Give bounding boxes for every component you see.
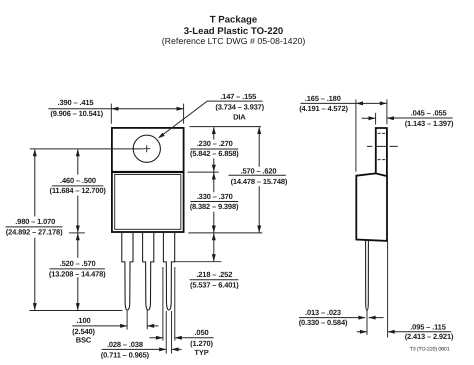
svg-text:.330 – .370: .330 – .370	[197, 192, 233, 201]
side view: front face extension line	[355, 99, 357, 171]
svg-text:BSC: BSC	[76, 336, 92, 345]
svg-text:.028 – .038: .028 – .038	[107, 340, 143, 349]
svg-text:.045 – .055: .045 – .055	[411, 109, 447, 118]
body top extension right	[188, 171, 219, 173]
dim .570-.620 line	[258, 127, 260, 232]
svg-text:.570 – .620: .570 – .620	[241, 167, 277, 176]
svg-text:(3.734 – 3.937): (3.734 – 3.937)	[215, 103, 264, 112]
svg-text:.095 – .115: .095 – .115	[410, 322, 445, 331]
svg-text:(5.537 – 6.401): (5.537 – 6.401)	[190, 280, 239, 289]
front view: mounting hole center line	[30, 148, 143, 150]
svg-text:.147 – .155: .147 – .155	[220, 92, 256, 101]
svg-text:.100: .100	[77, 316, 91, 325]
svg-text:T3 (TO-220) 0801: T3 (TO-220) 0801	[410, 346, 450, 352]
dim .165-.180 line	[301, 102, 387, 104]
svg-text:(Reference LTC DWG # 05-08-142: (Reference LTC DWG # 05-08-1420)	[162, 36, 306, 46]
side view: lead center extension	[366, 310, 368, 335]
lead 1 (left)	[122, 233, 133, 310]
dim .520-.570 line	[77, 233, 79, 310]
dim .095-.115 line	[357, 331, 452, 333]
svg-text:T Package: T Package	[210, 15, 257, 26]
svg-text:(24.892 – 27.178): (24.892 – 27.178)	[6, 228, 63, 237]
front view: hole center cross	[143, 145, 150, 152]
lead 1 center extension	[126, 310, 128, 330]
front view: body outline	[112, 172, 184, 232]
side view: tab outline	[376, 128, 387, 176]
svg-text:(14.478 – 15.748): (14.478 – 15.748)	[231, 177, 288, 186]
front view: body inner line	[115, 175, 181, 230]
svg-text:.218 – .252: .218 – .252	[196, 270, 232, 279]
front view: tab outline	[112, 128, 184, 172]
dim .390-.415 extension lines	[111, 104, 183, 124]
svg-text:.460 – .500: .460 – .500	[60, 176, 96, 185]
svg-text:.013 – .023: .013 – .023	[305, 308, 341, 317]
svg-text:(0.711 – 0.965): (0.711 – 0.965)	[101, 351, 150, 360]
dim .980-1.070 line	[34, 150, 36, 311]
svg-text:(1.143 – 1.397): (1.143 – 1.397)	[405, 119, 454, 128]
front view: mounting hole circle	[133, 135, 160, 162]
dim .230-.270 line	[213, 127, 215, 172]
dim .013-.023 line	[299, 317, 384, 319]
lead 2 (middle)	[143, 233, 154, 310]
lead 3 narrow-width extension lines	[166, 311, 171, 354]
shoulder extension right	[175, 261, 222, 263]
dia leader line	[159, 101, 216, 137]
dim .050 TYP line	[150, 337, 214, 339]
svg-text:TYP: TYP	[194, 348, 208, 357]
side view: tab center line	[367, 145, 398, 147]
svg-text:(13.208 – 14.478): (13.208 – 14.478)	[49, 270, 106, 279]
body bottom extension right	[188, 232, 262, 234]
svg-text:(9.906 – 10.541): (9.906 – 10.541)	[50, 109, 103, 118]
dim .045-.055 line	[362, 117, 453, 119]
svg-text:(1.270): (1.270)	[190, 339, 213, 348]
lead 3 (right)	[163, 233, 174, 310]
dim .330-.370 line	[213, 172, 215, 232]
side view: tab hidden hole line bottom	[378, 159, 386, 161]
body bottom extension tick left	[69, 232, 85, 234]
svg-text:.520 – .570: .520 – .570	[60, 259, 96, 268]
side view: body outline	[356, 173, 387, 241]
tab top extension right	[190, 126, 262, 128]
svg-text:(5.842 – 6.858): (5.842 – 6.858)	[190, 149, 239, 158]
side view: back face extension line	[386, 99, 388, 124]
lead tip extension line	[29, 310, 122, 312]
lead 2 center extension	[146, 310, 148, 329]
dim .460-.500 line	[77, 150, 79, 233]
dim .218-.252 line	[213, 233, 215, 261]
svg-text:(11.684 – 12.700): (11.684 – 12.700)	[49, 186, 106, 195]
svg-text:.050: .050	[195, 328, 209, 337]
dim .390-.415 line	[48, 108, 183, 110]
lead 3 wide-width extension lines	[163, 267, 175, 341]
svg-text:(2.540): (2.540)	[72, 327, 95, 336]
side view: tab front extension line	[375, 113, 377, 125]
svg-text:.390 – .415: .390 – .415	[58, 98, 94, 107]
side view: lead	[366, 240, 369, 310]
side view: back face lower extension	[387, 241, 389, 337]
svg-text:(8.382 – 9.398): (8.382 – 9.398)	[190, 202, 239, 211]
dim .100 BSC line	[72, 325, 158, 327]
svg-text:3-Lead Plastic TO-220: 3-Lead Plastic TO-220	[184, 26, 284, 37]
svg-text:.980 – 1.070: .980 – 1.070	[15, 217, 55, 226]
svg-text:.165 – .180: .165 – .180	[305, 94, 341, 103]
svg-text:(4.191 – 4.572): (4.191 – 4.572)	[299, 104, 348, 113]
svg-text:DIA: DIA	[233, 112, 246, 121]
dim .028-.038 line	[102, 348, 182, 350]
svg-text:(0.330 – 0.584): (0.330 – 0.584)	[299, 318, 348, 327]
side view: tab hidden hole line top	[378, 132, 386, 134]
svg-text:.230 – .270: .230 – .270	[197, 139, 233, 148]
svg-text:(2.413 – 2.921): (2.413 – 2.921)	[405, 332, 454, 341]
